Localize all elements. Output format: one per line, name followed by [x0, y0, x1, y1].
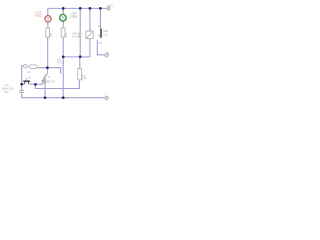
- LED LD2 green: [60, 14, 67, 21]
- svg-text:GRN: GRN: [70, 15, 78, 19]
- svg-text:12V: 12V: [103, 32, 108, 36]
- relay coil K1: [86, 31, 93, 38]
- junction C1 switch node: [20, 83, 23, 86]
- svg-text:1k5: 1k5: [48, 32, 52, 37]
- supply +12V pad: [107, 7, 110, 10]
- pin tick LD2 top: [62, 10, 64, 12]
- pin tick coil top: [89, 29, 91, 31]
- diode D1: [79, 33, 82, 37]
- svg-text:K1: K1: [99, 41, 103, 45]
- svg-text:63V: 63V: [4, 91, 9, 94]
- svg-text:S1: S1: [28, 76, 32, 80]
- wire drain stub: [45, 68, 47, 76]
- svg-text:+12V: +12V: [106, 3, 113, 7]
- wire speaker right pin to drain node: [38, 68, 60, 74]
- svg-text:K1: K1: [98, 24, 102, 28]
- svg-text:1k5: 1k5: [64, 32, 68, 37]
- svg-text:D1 48: D1 48: [72, 36, 79, 39]
- junction node B at diode column: [79, 55, 82, 58]
- contact fixed terminal: [98, 34, 100, 36]
- wire R1 to node A: [47, 37, 49, 68]
- wire diode column upper: [79, 8, 81, 32]
- LED LD1 red: [45, 16, 51, 22]
- wire gate lead: [35, 80, 43, 84]
- wire contact top: [99, 8, 101, 28]
- wire coil top: [89, 8, 91, 31]
- junction top rail at D1: [79, 7, 82, 10]
- junction node A drain: [46, 66, 49, 69]
- junction ground at source: [44, 96, 47, 99]
- wire LD1 to R1: [47, 22, 49, 28]
- wire speaker left pin down: [22, 66, 24, 90]
- wire LD2 to R2: [62, 21, 64, 28]
- wire R3 to gate net: [35, 80, 79, 89]
- wire switch right to gate node: [31, 83, 36, 85]
- wire ground rail: [22, 97, 105, 99]
- junction top rail at coil: [89, 7, 92, 10]
- wire LD1 column upper: [47, 8, 49, 15]
- pin tick switch left: [23, 83, 25, 85]
- wire diode column lower: [79, 37, 81, 56]
- wire node B to R3: [79, 57, 81, 69]
- pin tick coil bottom: [89, 39, 91, 41]
- junction gate node: [34, 83, 37, 86]
- junction top rail at LD2: [62, 7, 65, 10]
- svg-text:-U: -U: [104, 93, 107, 96]
- wire switch left: [22, 83, 24, 85]
- speaker / jack PL1: [24, 65, 37, 69]
- junction ground at LD2 column: [62, 96, 65, 99]
- relay contact SR1: [100, 29, 102, 38]
- wire LD2 column upper: [62, 8, 64, 14]
- wire coil bottom to node B: [89, 39, 91, 57]
- resistor R1: [46, 28, 50, 37]
- wire R2 down to ground rail: [62, 37, 64, 98]
- capacitor C1: [19, 90, 24, 92]
- svg-text:PK211: PK211: [57, 61, 65, 64]
- resistor R2: [61, 28, 65, 37]
- svg-text:BS170: BS170: [46, 79, 55, 83]
- pin tick switch right: [29, 83, 31, 85]
- transistor T1 BS170: [44, 75, 47, 84]
- wire contact to out pad: [97, 40, 105, 55]
- wire source to ground: [44, 84, 46, 98]
- svg-text:C1: C1: [5, 83, 9, 87]
- wire node B horizontal: [63, 56, 90, 58]
- out pad 1: [105, 53, 109, 57]
- pin tick contact top: [99, 27, 101, 29]
- switch S1: [23, 80, 30, 82]
- junction top rail at contact: [99, 7, 102, 10]
- wire top +12V rail: [48, 7, 107, 9]
- wire C1 to ground rail: [21, 93, 23, 98]
- pin tick speaker: [37, 67, 39, 69]
- resistor R3: [78, 69, 82, 80]
- background: [0, 0, 120, 108]
- svg-text:R3: R3: [83, 75, 87, 79]
- out pad 2: [105, 96, 109, 100]
- svg-text:MIC: MIC: [27, 71, 32, 74]
- junction node B at LD2 column: [62, 56, 65, 59]
- svg-text:RED: RED: [35, 14, 43, 18]
